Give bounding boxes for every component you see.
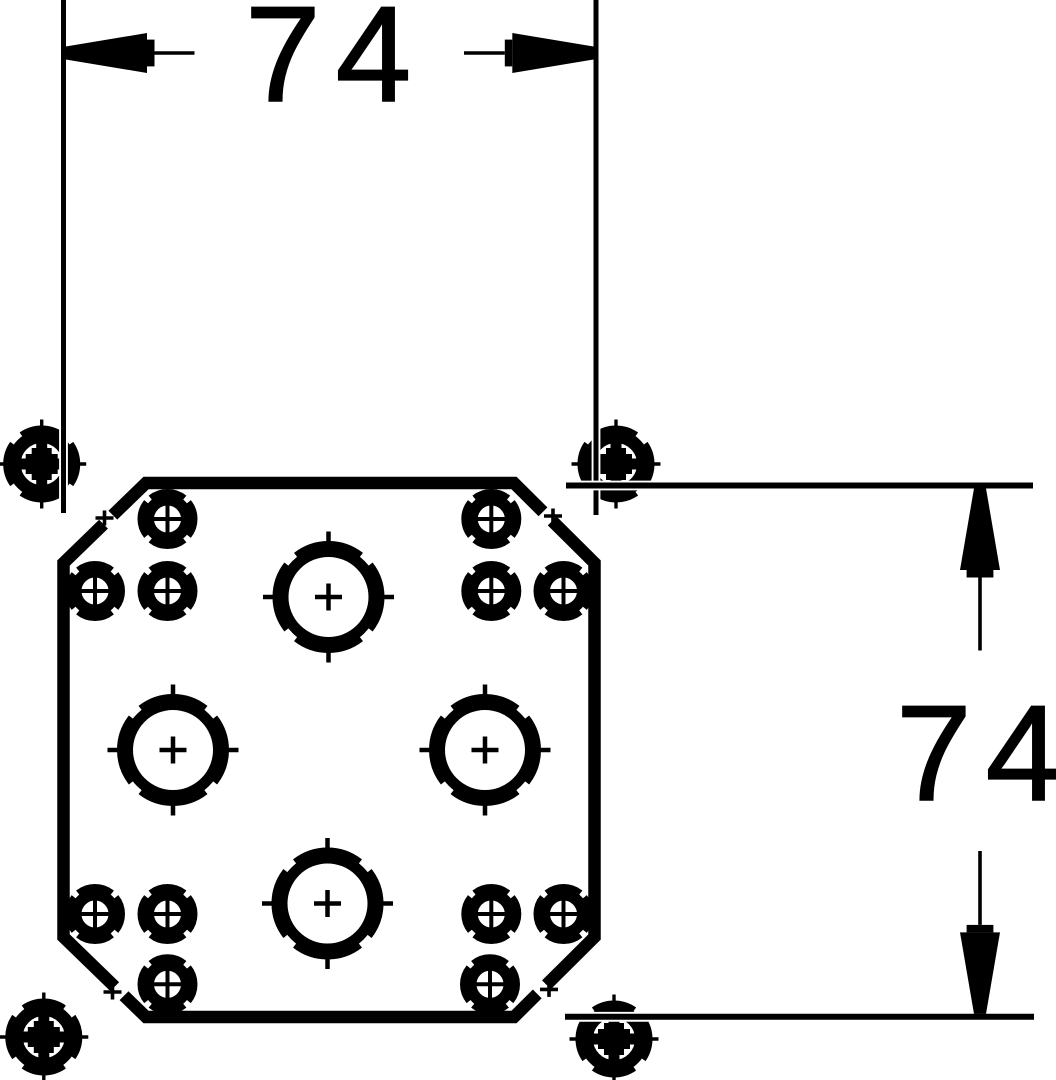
dimension line right with arrows <box>960 488 1000 570</box>
corner screw top-left <box>0 420 86 509</box>
svg-text:74: 74 <box>245 0 426 130</box>
large hole left <box>108 685 239 816</box>
corner screw bottom-left <box>0 993 88 1080</box>
extension line top-right <box>566 481 1033 491</box>
small hole 7 <box>68 887 121 940</box>
extension line left <box>59 0 68 513</box>
corner screw top-right <box>572 420 661 509</box>
large hole top <box>263 532 394 663</box>
small hole 10 <box>537 887 590 940</box>
chamfer center mark 1 <box>96 511 114 526</box>
small hole 2 <box>465 492 518 545</box>
large hole right <box>420 685 551 816</box>
extension line right <box>592 0 601 515</box>
chamfer center mark 3 <box>540 982 558 997</box>
small hole 11 <box>141 958 194 1011</box>
extension line bottom-right <box>565 1012 1034 1022</box>
small hole 5 <box>465 564 518 617</box>
plate outline <box>64 483 595 1017</box>
dimension line top with arrows <box>66 33 147 73</box>
small hole 4 <box>141 564 194 617</box>
chamfer center mark 4 <box>104 985 122 1000</box>
small hole 9 <box>465 887 518 940</box>
chamfer gap 1 <box>94 505 122 533</box>
small hole 8 <box>141 887 194 940</box>
small hole 12 <box>463 958 516 1011</box>
small hole 3 <box>68 564 121 617</box>
chamfer gap 4 <box>105 978 133 1006</box>
chamfer center mark 2 <box>544 509 562 524</box>
svg-text:74: 74 <box>896 677 1056 829</box>
chamfer gap 2 <box>534 503 562 531</box>
corner screw bottom-right <box>570 995 659 1080</box>
large hole bottom <box>262 838 393 969</box>
chamfer gap 3 <box>528 976 556 1004</box>
small hole 1 <box>141 492 194 545</box>
small hole 6 <box>537 564 590 617</box>
